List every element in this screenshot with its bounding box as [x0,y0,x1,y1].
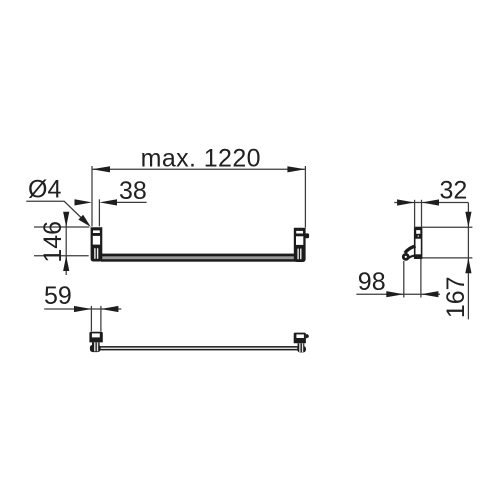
front view right bracket [294,228,309,262]
side view profile [403,228,421,260]
leader Ø4 [26,176,91,227]
dimension 32 [394,176,468,228]
svg-text:98: 98 [358,268,386,296]
top view bar [100,346,298,350]
dimension max. 1220 [92,144,305,227]
top view right end [294,333,309,353]
svg-text:Ø4: Ø4 [28,176,61,204]
svg-text:max. 1220: max. 1220 [141,144,261,172]
svg-text:38: 38 [119,177,147,205]
front view left bracket [91,227,103,261]
dimension 167 [422,203,473,320]
svg-text:32: 32 [440,176,468,204]
svg-text:167: 167 [442,276,470,318]
svg-text:146: 146 [39,221,67,263]
top view left end [89,332,102,352]
dimension 38 [75,177,147,226]
dimension 98 [356,259,440,298]
dimension 146 [34,212,89,275]
front view push bar [101,254,295,262]
dimension 59 [44,282,121,331]
svg-text:59: 59 [44,282,72,310]
